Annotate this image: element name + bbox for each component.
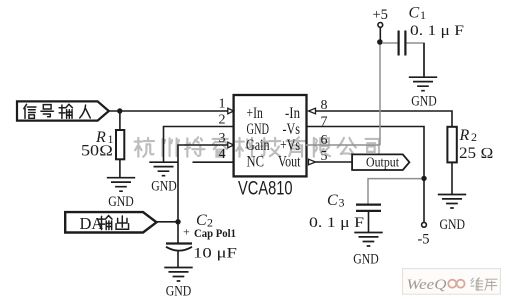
wire: C2 to ground	[177, 251, 179, 267]
watermark company name 杭州将睿科技有限公司	[135, 137, 379, 156]
svg-text:25 Ω: 25 Ω	[459, 145, 494, 162]
pin 2 wire to ground	[164, 127, 234, 163]
svg-text:+5: +5	[373, 7, 388, 23]
terminal -5	[422, 222, 427, 227]
svg-text:2: 2	[219, 113, 226, 128]
svg-text:GND: GND	[353, 252, 379, 268]
wire: pin 8 to R2	[316, 111, 453, 127]
svg-text:Vout: Vout	[278, 154, 301, 171]
svg-text:2: 2	[471, 130, 477, 144]
svg-text:-Vs: -Vs	[283, 121, 301, 138]
svg-text:+In: +In	[247, 105, 263, 122]
svg-text:10 μF: 10 μF	[193, 246, 237, 262]
node junction dot +5	[377, 39, 383, 45]
node junction dot -5 rail	[421, 176, 426, 181]
svg-text:GND: GND	[411, 94, 437, 110]
wire: R1 to ground	[119, 159, 121, 177]
svg-text:GND: GND	[440, 217, 466, 233]
svg-text:6: 6	[321, 133, 328, 148]
pin 8 arrow	[309, 108, 316, 114]
svg-text:4: 4	[219, 147, 226, 162]
svg-text:0. 1 μ F: 0. 1 μ F	[309, 215, 364, 231]
svg-text:NC: NC	[247, 154, 265, 171]
wire: DA flag to junction	[157, 221, 179, 223]
pin 3 wire and arrow	[178, 145, 228, 222]
wire: C3 to ground	[368, 211, 370, 232]
wire: C1 to ground	[407, 43, 425, 77]
resistor R1	[116, 130, 124, 159]
svg-text:VCA810: VCA810	[238, 179, 293, 200]
pin 4 NC stub	[193, 161, 234, 163]
node A junction dot at signal input	[117, 108, 122, 113]
wire: junction down to R1	[119, 111, 121, 130]
ground at pin 2	[149, 162, 177, 176]
svg-text:C: C	[409, 5, 420, 22]
flag 信号输入 (signal input)	[17, 101, 109, 120]
WeeQoo watermark box	[403, 269, 501, 295]
svg-text:Output: Output	[366, 155, 399, 170]
pin 5 arrow	[309, 159, 316, 165]
wire: signal input to pin1	[109, 110, 228, 112]
svg-text:GND: GND	[108, 194, 134, 210]
capacitor C3	[356, 205, 381, 211]
wire: pin 7 to -5	[306, 127, 424, 223]
node junction dot DA/C2	[175, 219, 180, 224]
resistor R2	[447, 127, 456, 163]
op-amp U1 VCA810 box	[234, 95, 307, 176]
svg-text:1: 1	[219, 97, 226, 112]
svg-text:+: +	[183, 225, 190, 239]
wire: -5 junction to C3 (gray)	[368, 179, 422, 204]
svg-text:-5: -5	[417, 232, 429, 248]
wire: pin 6 to +5 rail (gray)	[306, 144, 380, 146]
svg-text:1: 1	[420, 8, 426, 22]
svg-text:Cap Pol1: Cap Pol1	[194, 226, 236, 240]
svg-text:WeeQ: WeeQ	[407, 277, 448, 293]
wire: R2 to ground	[451, 162, 453, 194]
ground above (C1 gnd)	[409, 77, 437, 91]
svg-text:7: 7	[321, 115, 328, 130]
svg-text:3: 3	[219, 131, 226, 146]
ground under R1	[107, 178, 135, 192]
pin 1 arrow	[228, 108, 234, 114]
svg-text:GND: GND	[151, 178, 177, 194]
svg-text:50Ω: 50Ω	[81, 143, 113, 160]
svg-text:0. 1 μ F: 0. 1 μ F	[410, 23, 464, 39]
wire: +5 junction to C1 (gray)	[382, 42, 398, 44]
ground under C3	[354, 233, 382, 247]
flag Output	[352, 154, 409, 170]
svg-text:C: C	[327, 192, 338, 209]
svg-text:+Vs: +Vs	[280, 137, 300, 154]
svg-text:Gain: Gain	[246, 137, 270, 154]
svg-text:GND: GND	[247, 121, 270, 138]
ground under C2	[164, 268, 192, 282]
svg-text:-In: -In	[285, 105, 300, 122]
wire: junction down to C2	[177, 222, 179, 244]
svg-text:3: 3	[339, 196, 345, 210]
capacitor C1	[399, 31, 406, 56]
wire: pin 5 to Output flag	[316, 161, 353, 163]
svg-text:R: R	[459, 127, 470, 144]
flag DA输出 (DA output)	[65, 212, 156, 232]
wire: +5 rail vertical (gray)	[379, 44, 381, 146]
ground under R2	[438, 195, 466, 209]
svg-text:GND: GND	[166, 284, 192, 299]
